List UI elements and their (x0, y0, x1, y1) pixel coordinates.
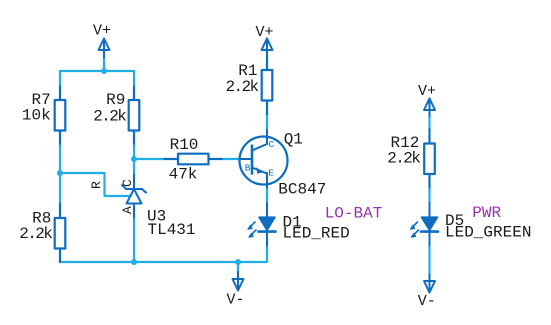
resistor R10 (165, 154, 222, 165)
led D5 (410, 203, 438, 246)
wire R1 bottom to Q1 collector (266, 114, 268, 130)
svg-text:V-: V- (226, 292, 244, 309)
power symbol V- right (424, 275, 435, 293)
svg-text:R: R (89, 181, 104, 189)
svg-text:R10: R10 (170, 136, 199, 154)
wire D5 to V-2 (428, 246, 430, 275)
svg-text:TL431: TL431 (148, 221, 196, 239)
junction node R9/R10 (131, 156, 137, 162)
wire TL431 anode down (133, 218, 135, 263)
wire R10 left (134, 158, 165, 160)
resistor R1 (262, 56, 273, 114)
svg-text:V+: V+ (93, 23, 111, 40)
wire top bus (60, 70, 134, 72)
svg-text:Q1: Q1 (284, 130, 303, 148)
junction node V+1 bus (101, 68, 107, 74)
svg-text:R9: R9 (106, 91, 125, 109)
svg-text:V+: V+ (418, 83, 436, 100)
svg-text:2.2k: 2.2k (19, 225, 52, 243)
svg-text:LED_GREEN: LED_GREEN (445, 223, 531, 241)
svg-text:V-: V- (418, 293, 436, 310)
svg-text:B: B (245, 163, 251, 174)
resistor R7 (55, 87, 66, 144)
svg-text:2.2k: 2.2k (93, 108, 126, 126)
wire R9 bottom (133, 144, 135, 160)
svg-text:PWR: PWR (472, 204, 501, 222)
wire R reference run (60, 173, 131, 196)
power symbol V+ middle (262, 39, 273, 71)
svg-text:47k: 47k (169, 166, 198, 184)
svg-text:A: A (120, 206, 135, 214)
led D1 (248, 203, 276, 246)
wire node to TL431 cathode (133, 159, 135, 175)
svg-text:LO-BAT: LO-BAT (325, 204, 383, 222)
wire R7 top (59, 71, 61, 87)
svg-text:V+: V+ (255, 24, 273, 41)
resistor R9 (129, 87, 140, 144)
svg-text:2.2k: 2.2k (225, 78, 258, 96)
wire Q1 emitter to D1 (266, 188, 268, 203)
resistor R8 (55, 204, 66, 262)
wire R9 top (133, 71, 135, 87)
svg-text:E: E (268, 168, 274, 179)
svg-text:2.2k: 2.2k (387, 150, 420, 168)
transistor Q1 (240, 130, 288, 188)
svg-text:BC847: BC847 (278, 181, 326, 199)
wire V+1 stem (103, 58, 105, 72)
wire R8 top (59, 173, 61, 204)
svg-text:LED_RED: LED_RED (283, 225, 350, 243)
power symbol V+ right (424, 99, 435, 117)
wire R10 right to Q1 base (222, 158, 240, 160)
svg-text:C: C (120, 179, 135, 187)
power symbol V- left (233, 272, 244, 291)
wire bottom bus (60, 246, 267, 263)
wire R12 to D5 (428, 188, 430, 204)
op U3 TL431 (122, 175, 146, 218)
junction node TL431 anode bus (131, 259, 137, 265)
resistor R12 (424, 130, 435, 188)
wire V-1 stem (237, 262, 239, 272)
junction node V-1 bus (235, 259, 241, 265)
wire V+3 to R12 (428, 116, 430, 130)
power symbol V+ left (99, 39, 110, 58)
wire R7 bottom (59, 144, 61, 174)
svg-text:10k: 10k (22, 107, 51, 125)
svg-text:C: C (269, 139, 275, 150)
junction node R7/R8 (57, 170, 63, 176)
